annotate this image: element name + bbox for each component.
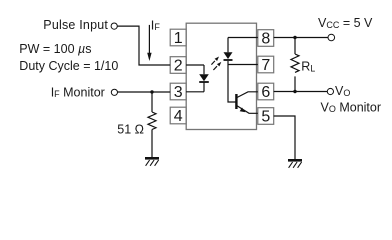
- phototransistor Q1: [236, 92, 257, 114]
- wire: Pulse Input to pin 2: [117, 26, 170, 65]
- svg-text:3: 3: [174, 84, 183, 101]
- svg-text:Pulse Input: Pulse Input: [43, 18, 108, 32]
- svg-text:8: 8: [261, 31, 270, 48]
- svg-text:Duty Cycle = 1/10: Duty Cycle = 1/10: [19, 59, 118, 73]
- ground (51 ohm): [145, 158, 159, 166]
- optocoupler U1 body: [186, 23, 256, 129]
- wire: pin 6 to VO: [274, 91, 328, 93]
- pin 3: [170, 83, 186, 101]
- wire: photodiode node down to transistor base: [228, 65, 236, 103]
- terminal: VO: [327, 88, 333, 94]
- pin 4: [170, 107, 186, 125]
- pin 2: [170, 57, 186, 75]
- ground (pin 5): [288, 160, 302, 168]
- photodiode D2: [224, 38, 233, 65]
- pin 5: [258, 108, 274, 126]
- svg-text:2: 2: [174, 58, 183, 75]
- junction: 51 ohm tap: [150, 90, 153, 93]
- LED D1 (input emitter diode): [186, 65, 209, 92]
- terminal: Pulse Input: [111, 23, 117, 29]
- terminal: VCC: [328, 34, 335, 41]
- light arrows (optical coupling): [211, 57, 221, 71]
- wire: pin 8 to VCC: [274, 37, 328, 39]
- current arrow IF: [147, 25, 151, 61]
- svg-text:6: 6: [261, 84, 270, 101]
- svg-text:4: 4: [174, 108, 183, 125]
- svg-text:IF Monitor: IF Monitor: [51, 85, 105, 99]
- svg-text:51 Ω: 51 Ω: [117, 122, 144, 136]
- wire: photodiode cathode to pin 7: [228, 64, 258, 66]
- pin 1: [170, 29, 186, 47]
- pin 8: [258, 30, 274, 48]
- wire: pin 5 to ground: [274, 116, 295, 160]
- terminal: IF Monitor: [111, 89, 117, 95]
- svg-text:VCC = 5 V: VCC = 5 V: [318, 16, 373, 30]
- svg-text:1: 1: [174, 30, 183, 47]
- junction: RL top: [293, 36, 296, 39]
- svg-text:PW = 100 µs: PW = 100 µs: [19, 42, 91, 56]
- wire: photodiode anode to pin 8: [228, 37, 258, 39]
- pin 6: [258, 83, 274, 101]
- pin 7: [258, 56, 274, 74]
- junction: RL bottom / VO node: [293, 90, 296, 93]
- svg-text:5: 5: [261, 109, 270, 126]
- svg-text:7: 7: [261, 57, 270, 74]
- resistor 51 ohm: [148, 92, 156, 158]
- resistor RL: [291, 38, 299, 92]
- wire: IF Monitor to pin 3: [118, 91, 171, 93]
